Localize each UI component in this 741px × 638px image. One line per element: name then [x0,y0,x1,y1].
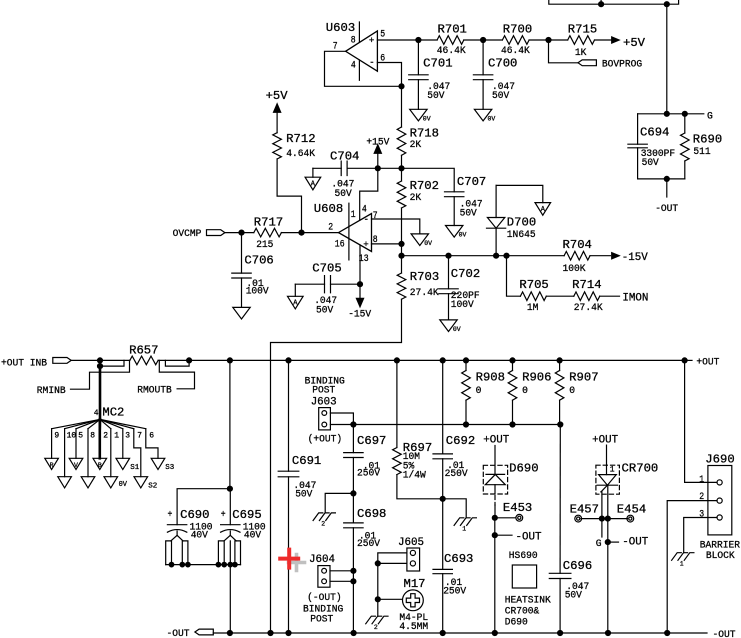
label BINDING POST J603 [305,376,345,408]
wire MC2 fan [88,419,100,428]
svg-text:RMINB: RMINB [37,386,66,397]
wire gate to G [601,519,603,537]
wire MC2 fan [52,419,100,428]
svg-text:R715: R715 [568,22,597,36]
wire to G [685,113,704,115]
svg-text:R906: R906 [522,371,551,385]
node C694 bottom [664,176,669,181]
svg-text:C696: C696 [563,559,592,573]
svg-text:1N645: 1N645 [507,230,536,241]
svg-text:1: 1 [351,210,356,221]
ground V [69,458,83,469]
label MC2 pin 7 [137,431,142,440]
wire D690 anode [494,446,496,475]
svg-text:C701: C701 [423,57,452,71]
svg-text:C690: C690 [180,508,209,522]
wire MC2 pin1 drop [110,429,112,477]
ground A right of D700 [496,185,550,215]
svg-text:R701: R701 [438,22,467,36]
node -OUT rail [286,631,291,636]
wire RMINB sense [71,360,130,389]
ground 0V under C702 [440,320,461,333]
label OVCMP [173,229,202,240]
wire to E453 [495,517,516,519]
svg-text:S3: S3 [165,464,174,472]
screw M17 [399,577,428,633]
resistor R906 [508,360,551,424]
node +OUT row R906 col [510,358,515,363]
svg-text:IMON: IMON [622,292,648,304]
node +OUT INB tap upper [98,358,103,363]
wire RMOUTB sense [159,360,194,388]
svg-text:C704: C704 [330,149,359,163]
node M17 tap [375,597,380,602]
label J604 [309,554,335,566]
label MC2 pin 1 [114,431,119,440]
node C702 tap [446,253,451,258]
svg-text:0V: 0V [453,326,461,333]
svg-text:RMOUTB: RMOUTB [137,385,172,396]
svg-text:1: 1 [462,525,466,532]
wire CR700 gate [600,492,603,519]
wire U608 pin13 [359,245,361,284]
node E453 tap [492,515,497,520]
resistor R702 [397,168,439,244]
svg-text:250V: 250V [357,539,381,550]
wire cathode down [607,519,609,633]
svg-text:1: 1 [610,466,615,475]
wire MC2 fan [100,419,146,428]
node J604 pin1 [351,568,356,573]
node R657 right sense [187,358,192,363]
node +OUT row R908 col [464,358,469,363]
svg-text:5: 5 [380,30,385,41]
svg-text:C705: C705 [312,261,341,275]
svg-text:+: + [221,510,226,521]
svg-text:+5V: +5V [623,36,646,50]
ground S2 [134,477,157,491]
svg-text:J604: J604 [309,554,335,566]
ground 0V under C701 [410,109,431,122]
wire to E454 [608,518,628,520]
svg-text:250V: 250V [445,469,469,480]
wire D690 to rail [494,535,496,633]
node J604 pin2 [351,579,356,584]
wire MC2 fan [65,419,100,428]
node J603 row R907 end [558,422,563,427]
svg-text:E454: E454 [617,502,646,516]
node -OUT rail [665,631,670,636]
node crown 7 [233,562,238,567]
label (+OUT) [308,434,343,446]
svg-text:B: B [98,462,102,469]
node +OUT row J690 col [682,358,687,363]
label MC2 pin 9 [54,431,59,440]
svg-text:R714: R714 [572,278,601,292]
capacitor C700 [473,40,517,109]
node -OUT rail [558,631,563,636]
svg-text:D690: D690 [505,617,528,628]
svg-text:R690: R690 [693,133,722,147]
svg-text:C698: C698 [357,507,386,521]
svg-text:U608: U608 [314,202,343,216]
svg-text:1M: 1M [527,303,539,314]
svg-text:D690: D690 [509,461,538,475]
wire MC2 fan [100,419,123,428]
wire MC2 pin7 drop [134,429,141,477]
marker gray cross [289,555,305,571]
svg-text:BARRIER: BARRIER [700,541,740,552]
capacitor C692 [433,360,475,498]
node -OUT rail [227,631,232,636]
wire R705-R714 [546,295,574,297]
node C701 tap [416,38,421,43]
wire J603 row [330,424,560,426]
wire E457 row [581,518,605,520]
svg-text:+OUT: +OUT [592,434,618,446]
svg-text:4.64K: 4.64K [286,149,316,160]
svg-text:511: 511 [693,147,710,158]
node D700 tap [494,253,499,258]
wire MC2 pin9 drop [51,429,53,459]
label -OUT bottom right [713,630,736,638]
wire R657 right [158,359,685,361]
node cathode row [605,516,610,521]
capacitor C706 [232,233,274,308]
node +OUT row C692 col [440,358,445,363]
svg-text:250V: 250V [357,469,381,480]
label -OUT bottom left [167,629,190,638]
capacitor C696 [549,425,592,634]
wire R704 to -15V [590,255,611,257]
wire down to C694 [666,4,668,114]
resistor R697 [393,360,443,498]
svg-text:+5V: +5V [266,89,289,103]
svg-text:C702: C702 [451,267,480,281]
svg-text:7: 7 [137,431,142,440]
svg-text:4: 4 [351,60,356,71]
ground S3 [151,458,175,472]
node R705 tap [504,253,509,258]
svg-text:(+OUT): (+OUT) [308,434,343,446]
svg-text:BLOCK: BLOCK [706,551,736,562]
ground pin8 [81,477,95,488]
resistor R907 [555,360,598,424]
resistor R657 [129,344,158,365]
wire R700-R715 [529,39,568,41]
svg-text:J603: J603 [311,397,337,409]
svg-text:U603: U603 [326,21,355,35]
svg-text:250V: 250V [443,586,467,597]
ground earth 1 at J690 [672,553,694,568]
wire MC2 pin2 fan [99,419,102,428]
svg-text:100K: 100K [563,264,587,275]
op-amp U608 [314,202,378,265]
svg-text:C707: C707 [457,175,486,189]
svg-text:0: 0 [476,386,482,397]
svg-text:(-OUT): (-OUT) [307,592,342,604]
resistor R714 [572,278,603,314]
svg-text:HS690: HS690 [509,551,538,562]
svg-text:S1: S1 [130,464,139,472]
svg-text:OVCMP: OVCMP [173,229,202,240]
svg-text:27.4K: 27.4K [410,288,440,299]
svg-text:CR700&: CR700& [505,607,540,618]
svg-text:R: R [50,462,54,469]
node C690 top [227,486,232,491]
label MC2 pin 5 [78,431,83,440]
svg-text:6: 6 [149,431,154,440]
svg-text:HEATSINK: HEATSINK [505,596,552,607]
svg-text:-15V: -15V [348,310,372,321]
wire caps to -OUT rail [229,565,231,633]
label BARRIER BLOCK [700,541,740,563]
wire U603 pin6 [377,63,401,128]
node +OUT row R697 col [394,358,399,363]
wire J690 pin3 [684,518,717,553]
ground 0V under C707 [446,226,467,239]
resistor R703 [271,256,440,633]
ground A left of C704 [305,168,321,190]
svg-text:POST: POST [312,386,335,397]
wire to BOVPROG [549,40,578,63]
ground pin10 [58,477,72,488]
node C694 top [664,111,669,116]
wire MC2 fan [76,419,100,428]
label G gate [596,539,602,550]
svg-text:8: 8 [351,36,356,47]
wire MC2 pin2 drop [99,419,102,458]
ground R [45,458,59,469]
node C704/+15V junction [375,166,380,171]
svg-text:50V: 50V [565,590,583,601]
node crown 6 [228,562,233,567]
svg-text:9: 9 [54,431,59,440]
label G [707,112,713,123]
capacitor C698 [344,493,387,633]
node gate row [599,516,604,521]
svg-text:-OUT: -OUT [167,629,190,638]
svg-text:100V: 100V [451,300,475,311]
wire kelvin left loop [100,360,124,366]
wire C695 branch [229,489,231,525]
svg-text:+OUT: +OUT [696,358,719,369]
connector J603 [319,408,331,430]
terminal E453 [503,501,532,521]
node R690 top [682,111,687,116]
ground earth 1 at C692 [443,499,477,533]
svg-text:4: 4 [94,409,99,418]
node J603 row R908 [464,422,469,427]
svg-text:40V: 40V [191,530,209,541]
connector J605 [407,548,420,571]
svg-text:2: 2 [374,624,378,631]
svg-text:4.5MM: 4.5MM [399,622,428,633]
svg-text:R657: R657 [129,344,158,358]
svg-text:1: 1 [699,475,704,486]
svg-text:0V: 0V [423,115,431,122]
marker red cross [280,550,298,568]
wire J604 pin1 [330,570,353,572]
svg-text:2: 2 [328,222,333,233]
svg-text:C697: C697 [357,434,386,448]
label +OUT at CR700 [592,434,618,446]
label MC2 pin 6 [149,431,154,440]
svg-text:3: 3 [125,431,130,440]
svg-text:16: 16 [335,239,345,250]
node C705/pin13 [358,282,363,287]
svg-text:S2: S2 [148,482,157,490]
wire CR700 anode [606,445,608,475]
wire top bus [549,0,679,4]
svg-text:C692: C692 [446,434,475,448]
resistor R715 [568,22,598,59]
power -15V below C705 [348,284,372,320]
ground A left of C705 [288,284,304,309]
wire J605 down [377,563,379,599]
wire J605 pin2 [378,562,407,564]
wire J604 pin2 [330,580,353,582]
svg-text:50V: 50V [460,209,478,220]
node -OUT rail [440,631,445,636]
wire to M17 [378,598,402,600]
label -OUT at CR700 [608,537,649,549]
svg-text:R712: R712 [286,132,315,146]
op-amp U603 [326,21,385,80]
component MC2 stem [94,366,125,420]
svg-text:+: + [168,510,173,521]
svg-text:+: + [369,35,375,46]
svg-text:1: 1 [680,560,684,567]
capacitor C690 [166,508,213,564]
svg-text:R718: R718 [410,126,439,140]
svg-text:2K: 2K [410,140,422,151]
wire pin8 down [401,244,403,256]
wire U603 feedback [325,51,402,86]
label MC2 pin 2 [103,431,108,440]
svg-text:50V: 50V [492,91,510,102]
ground under C706 [233,307,250,319]
svg-text:2: 2 [321,521,325,528]
label -OUT at D690 [495,531,542,543]
svg-text:100V: 100V [246,287,270,298]
node crown 3 [186,562,191,567]
svg-text:POST: POST [310,615,333,626]
svg-text:R704: R704 [563,238,592,252]
svg-text:C700: C700 [488,57,517,71]
power +15V [366,137,390,168]
ground 0V at U608 pin7 [411,234,432,247]
wire tag to R657 [71,359,130,361]
capacitor C701 [409,40,453,109]
node J605 [375,561,380,566]
wire C694 top rail [638,113,685,115]
power +5V arrow up [274,104,281,113]
svg-text:R703: R703 [410,270,439,284]
node +OUT row C690 col [227,358,232,363]
capacitor C695 [218,508,265,564]
wire -OUT rail [213,632,707,634]
resistor R717 [254,216,283,251]
tag BOVPROG [578,59,642,70]
wire C694 to -OUT [666,179,668,197]
wire MC2 pin10 drop [64,429,66,477]
wire J603 pin1 [330,413,353,425]
svg-text:7: 7 [373,211,378,222]
label MC2 pin 10 [67,431,77,440]
wire U608 pin8 [372,243,402,245]
node +OUT INB tap lower [98,360,103,368]
node top bus to C694 [664,2,669,7]
wire to C690 [177,489,230,525]
svg-text:5: 5 [78,431,83,440]
label IMON [622,292,648,304]
svg-text:R908: R908 [476,371,505,385]
node crown 2 [180,562,185,567]
svg-text:E457: E457 [570,502,599,516]
wire kelvin right loop [165,360,189,366]
wire C704 row to R718 [378,167,402,169]
node pin8/R702 [399,241,404,246]
node G row [605,540,610,545]
svg-text:J690: J690 [705,452,734,466]
label (-OUT) BINDING POST [303,592,343,626]
label +OUT at D690 [483,434,509,446]
node crown 1 [169,562,174,567]
svg-text:E453: E453 [503,501,532,515]
svg-text:50V: 50V [316,305,334,316]
capacitor C691 [278,360,321,633]
wire MC2 pin8 drop [87,429,89,477]
power +5V label [266,89,289,103]
resistor R718 [397,126,439,168]
svg-text:-: - [364,214,370,225]
label J605 [398,537,424,549]
tag OVCMP [207,230,225,236]
svg-text:-: - [369,57,375,68]
wire U608 pin7 [372,219,420,234]
capacitor C697 [344,425,387,494]
node +OUT row R907 col [557,358,562,363]
svg-text:215: 215 [256,240,273,251]
ground 0V under C700 [474,109,495,122]
svg-text:R705: R705 [519,278,548,292]
node crown 5 [222,562,227,567]
node C692/R697 [440,496,445,501]
svg-text:R907: R907 [569,371,598,385]
svg-text:R717: R717 [254,216,283,230]
svg-text:0V: 0V [488,115,496,122]
svg-text:8: 8 [90,431,95,440]
svg-text:CR700: CR700 [622,461,659,475]
tag -OUT [195,629,213,635]
svg-text:50V: 50V [295,490,313,501]
wire D690 col down [494,518,496,535]
wire R715 to +5V [595,39,612,41]
svg-text:40V: 40V [244,530,262,541]
svg-text:50V: 50V [335,189,353,200]
node crown 4 [216,562,221,567]
label +OUT right [688,358,719,369]
wire CR700 cathode [606,485,608,518]
wire MC2 pin6 drop [146,429,158,459]
wire J605 pin1 [378,553,407,564]
svg-text:C694: C694 [640,126,669,140]
svg-text:1/4W: 1/4W [403,470,427,482]
node OVCMP/C706 [239,230,244,235]
svg-text:10: 10 [67,431,77,440]
svg-text:R702: R702 [410,179,439,193]
